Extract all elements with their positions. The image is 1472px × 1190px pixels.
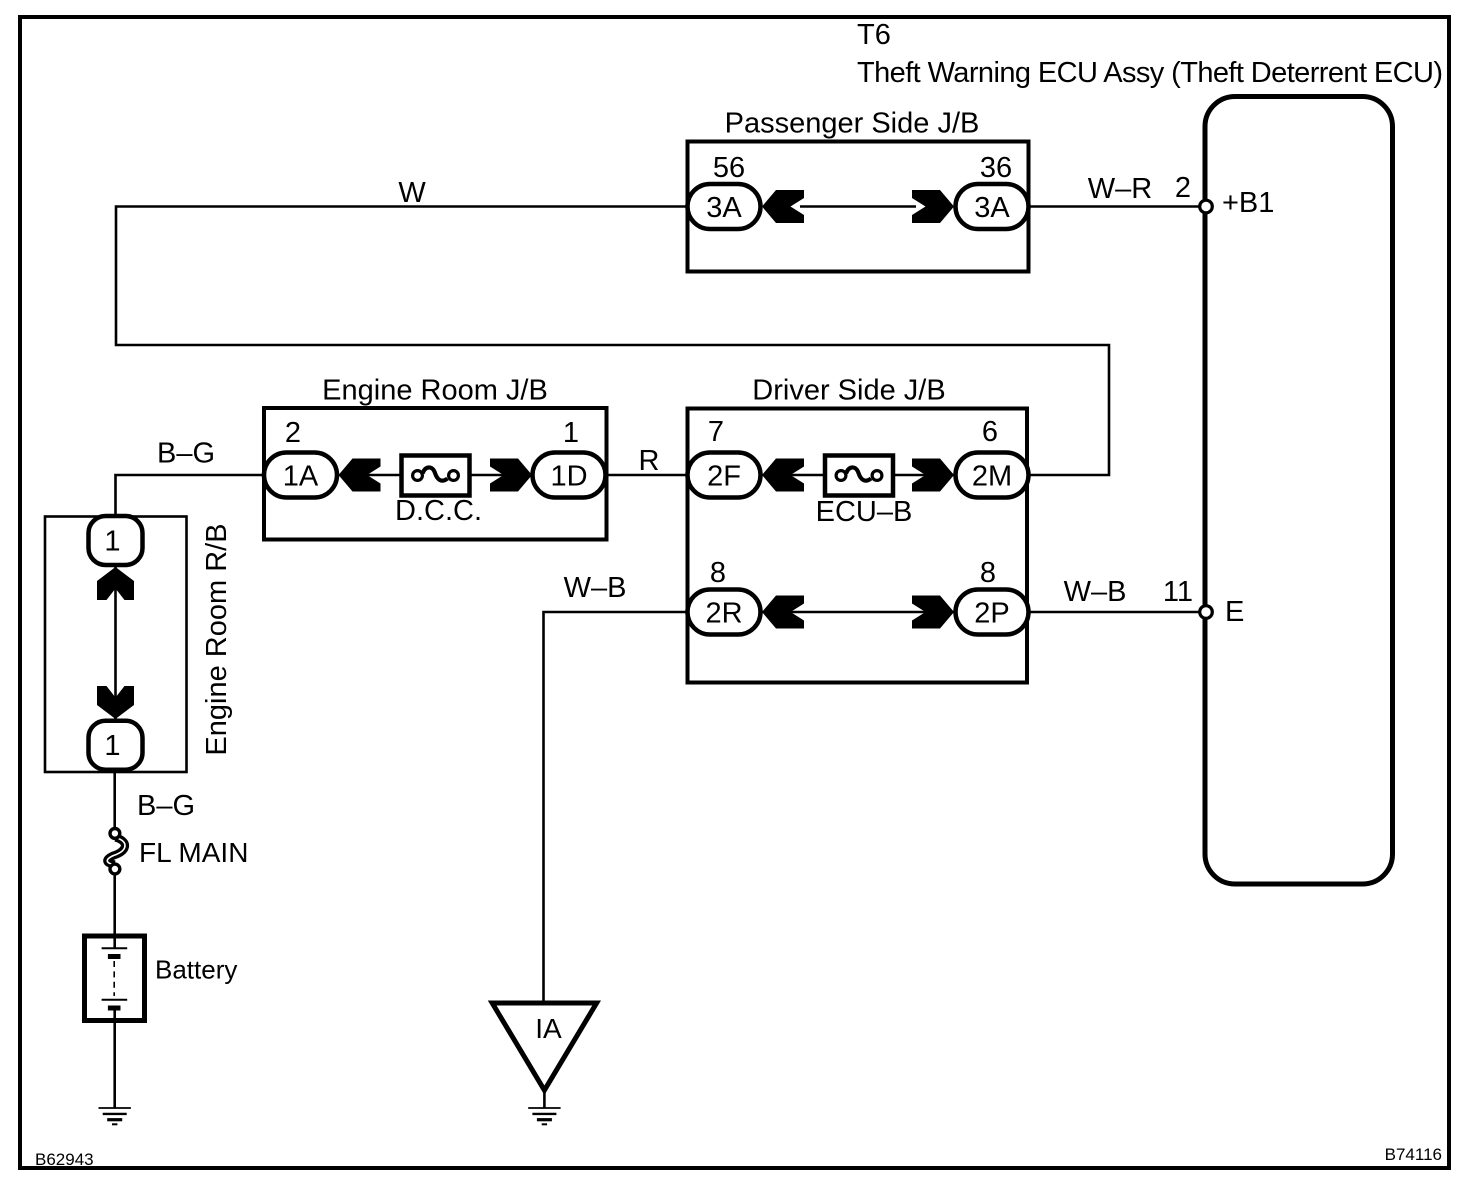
svg-text:2: 2 bbox=[1175, 172, 1191, 204]
arrow up bbox=[97, 567, 134, 600]
ground battery bbox=[99, 1108, 131, 1124]
svg-text:8: 8 bbox=[980, 557, 996, 589]
wire battery to ground bbox=[113, 1010, 116, 1108]
svg-text:2M: 2M bbox=[972, 461, 1012, 493]
wire B-G upper bbox=[116, 438, 267, 518]
wire between 3A arrows bbox=[800, 205, 916, 208]
svg-text:W–B: W–B bbox=[564, 572, 627, 604]
svg-text:Engine Room J/B: Engine Room J/B bbox=[322, 375, 548, 407]
ECU T6 Theft Warning ECU Assy bbox=[857, 19, 1443, 884]
wire W-B to pin E bbox=[1029, 576, 1200, 612]
wire through D.C.C. bbox=[339, 474, 532, 477]
svg-text:FL MAIN: FL MAIN bbox=[139, 837, 248, 868]
wire FL MAIN to battery bbox=[113, 874, 116, 948]
svg-text:+B1: +B1 bbox=[1222, 187, 1274, 219]
svg-text:8: 8 bbox=[710, 557, 726, 589]
svg-text:1A: 1A bbox=[283, 461, 319, 493]
fusible link FL MAIN bbox=[107, 829, 248, 874]
svg-text:IA: IA bbox=[535, 1013, 562, 1044]
svg-text:2P: 2P bbox=[974, 598, 1009, 630]
svg-text:1: 1 bbox=[563, 417, 579, 449]
connector 36 / 3A bbox=[956, 152, 1029, 229]
arrow into 1A bbox=[339, 459, 381, 492]
wire B-G lower bbox=[115, 772, 195, 829]
arrow into 2P bbox=[912, 596, 954, 629]
svg-text:T6: T6 bbox=[857, 19, 891, 51]
svg-text:2R: 2R bbox=[705, 598, 742, 630]
pin 2 +B1 bbox=[1175, 172, 1275, 219]
fuse ECU-B bbox=[816, 456, 913, 529]
svg-text:E: E bbox=[1225, 596, 1244, 628]
svg-text:6: 6 bbox=[982, 416, 998, 448]
svg-text:2F: 2F bbox=[707, 461, 741, 493]
junction block Engine Room J/B bbox=[264, 375, 607, 540]
connector 1 / 1D bbox=[533, 417, 606, 498]
svg-text:W–R: W–R bbox=[1088, 173, 1152, 205]
pin 11 E bbox=[1163, 576, 1244, 628]
svg-text:W: W bbox=[398, 177, 426, 209]
battery bbox=[85, 936, 238, 1021]
svg-text:56: 56 bbox=[713, 152, 745, 184]
connector 8 / 2P bbox=[956, 557, 1029, 635]
svg-text:3A: 3A bbox=[974, 192, 1010, 224]
arrow into 36/3A bbox=[912, 190, 954, 223]
svg-text:B–G: B–G bbox=[137, 790, 195, 822]
svg-text:Driver Side J/B: Driver Side J/B bbox=[752, 375, 945, 407]
fuse D.C.C. bbox=[395, 456, 482, 528]
connector 56 / 3A bbox=[688, 152, 761, 229]
arrow into 2R bbox=[762, 596, 804, 629]
arrow down bbox=[97, 686, 134, 719]
svg-text:Theft Warning ECU Assy (Theft: Theft Warning ECU Assy (Theft Deterrent … bbox=[857, 57, 1443, 89]
arrow into 2F bbox=[762, 459, 804, 492]
wire between 2R and 2P arrows bbox=[762, 611, 954, 614]
arrow into 2M bbox=[912, 459, 954, 492]
svg-text:1: 1 bbox=[104, 730, 120, 762]
svg-text:Battery: Battery bbox=[155, 955, 237, 985]
wire IA to ground bbox=[543, 1090, 546, 1108]
svg-text:Engine Room R/B: Engine Room R/B bbox=[201, 523, 233, 755]
wire W-R bbox=[1029, 173, 1200, 207]
svg-text:3A: 3A bbox=[706, 192, 742, 224]
junction block Passenger Side J/B bbox=[688, 108, 1029, 272]
wire W-B from 2R to IA bbox=[544, 572, 688, 1003]
wire W bbox=[116, 177, 1109, 475]
junction block Driver Side J/B bbox=[688, 375, 1028, 683]
wire R bbox=[605, 445, 689, 477]
svg-text:2: 2 bbox=[285, 417, 301, 449]
relay block Engine Room R/B bbox=[45, 517, 233, 773]
svg-text:R: R bbox=[639, 445, 660, 477]
svg-text:W–B: W–B bbox=[1064, 576, 1127, 608]
arrow into 1D bbox=[490, 459, 532, 492]
connector 2 / 1A bbox=[264, 417, 337, 498]
svg-text:11: 11 bbox=[1163, 576, 1193, 608]
arrow into 56/3A bbox=[762, 190, 804, 223]
ground IA bbox=[528, 1108, 560, 1124]
svg-text:B74116: B74116 bbox=[1385, 1145, 1442, 1164]
svg-text:1D: 1D bbox=[550, 461, 587, 493]
wire through ECU-B bbox=[762, 474, 954, 477]
svg-text:ECU–B: ECU–B bbox=[816, 496, 913, 528]
ground connector IA bbox=[492, 1003, 596, 1090]
connector 1 top bbox=[89, 516, 143, 565]
connector 7 / 2F bbox=[688, 416, 761, 498]
svg-text:B–G: B–G bbox=[157, 438, 215, 470]
connector 1 bottom bbox=[89, 721, 143, 770]
svg-text:7: 7 bbox=[708, 416, 724, 448]
svg-text:B62943: B62943 bbox=[35, 1150, 94, 1169]
connector 6 / 2M bbox=[956, 416, 1029, 498]
svg-text:Passenger Side J/B: Passenger Side J/B bbox=[725, 108, 980, 140]
connector 8 / 2R bbox=[688, 557, 761, 635]
svg-text:36: 36 bbox=[980, 152, 1012, 184]
wire inside R/B bbox=[114, 566, 117, 719]
svg-text:1: 1 bbox=[104, 526, 120, 558]
svg-text:D.C.C.: D.C.C. bbox=[395, 495, 482, 527]
